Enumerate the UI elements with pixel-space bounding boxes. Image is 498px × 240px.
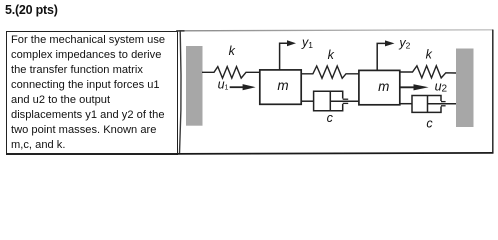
mass m1 xyxy=(260,70,301,104)
svg-text:u1: u1 xyxy=(218,78,229,92)
svg-text:c: c xyxy=(426,117,433,131)
force arrow u2 xyxy=(400,84,429,90)
svg-text:c: c xyxy=(327,111,334,125)
damper c2 xyxy=(400,96,456,113)
diagram frame xyxy=(176,30,493,154)
force arrow u1 xyxy=(230,84,256,90)
svg-text:m: m xyxy=(378,79,389,94)
damper c1 xyxy=(301,91,359,111)
svg-text:y2: y2 xyxy=(398,36,410,51)
svg-text:m: m xyxy=(277,78,288,93)
svg-text:k: k xyxy=(328,48,335,62)
spring k (middle) xyxy=(301,66,359,78)
mechanical system diagram xyxy=(0,0,498,160)
svg-text:k: k xyxy=(229,44,236,58)
svg-text:y1: y1 xyxy=(301,36,313,51)
left wall xyxy=(186,46,203,126)
displacement arrow y2 xyxy=(377,40,394,70)
svg-text:u2: u2 xyxy=(435,79,448,94)
mass m2 xyxy=(359,70,400,104)
problem statement text box xyxy=(6,31,178,155)
displacement arrow y1 xyxy=(280,40,296,70)
svg-text:k: k xyxy=(426,48,433,62)
spring k (right) xyxy=(400,66,456,78)
right wall xyxy=(456,49,474,128)
spring k (left) xyxy=(202,67,260,79)
title "5.(20 pts)" xyxy=(5,3,58,17)
